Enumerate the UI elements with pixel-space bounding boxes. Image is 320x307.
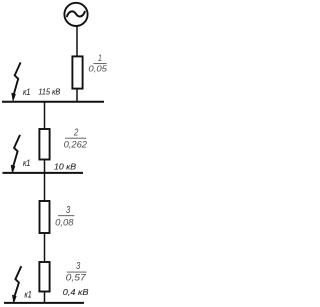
- svg-text:к1: к1: [23, 87, 30, 97]
- label к1 (third): [24, 290, 31, 300]
- label fraction 1/0,05: [88, 53, 107, 73]
- label fraction 3/0,08: [55, 205, 74, 227]
- svg-text:0,4 кВ: 0,4 кВ: [63, 287, 89, 297]
- cable element 3 (rect): [40, 201, 50, 233]
- wire generator to element 1: [76, 26, 78, 57]
- short-circuit arrow K1 at 10 kV bus: [11, 135, 20, 174]
- wire element 2 to bus 10 kV: [44, 160, 46, 174]
- label 115 кВ: [38, 87, 60, 97]
- svg-text:10 кВ: 10 кВ: [54, 162, 76, 172]
- bus 0,4 kV: [4, 302, 84, 304]
- svg-text:к1: к1: [24, 290, 31, 300]
- label 0,4 кВ: [63, 287, 89, 297]
- wire element 3 to element 4: [44, 233, 46, 262]
- svg-text:2: 2: [73, 127, 78, 138]
- svg-text:0,05: 0,05: [88, 63, 107, 73]
- svg-text:3: 3: [66, 205, 71, 216]
- wire bus 115 kV to element 2: [44, 102, 46, 129]
- label к1 (second): [23, 158, 30, 168]
- wire element 4 to bus 0,4 kV: [44, 291, 46, 303]
- bus 115 kV: [2, 101, 104, 103]
- generator G: [64, 3, 87, 26]
- label fraction 3/0,57: [66, 261, 87, 282]
- svg-text:0,08: 0,08: [55, 217, 74, 227]
- transformer element 2 (rect): [39, 129, 49, 160]
- svg-text:115 кВ: 115 кВ: [38, 87, 60, 97]
- transformer element 4 (rect): [39, 262, 49, 292]
- short-circuit arrow K1 at 115 kV bus: [12, 62, 21, 101]
- svg-text:3: 3: [76, 261, 81, 272]
- label 10 кВ: [54, 162, 76, 172]
- label к1 (first): [23, 87, 30, 97]
- svg-text:0,262: 0,262: [64, 139, 87, 149]
- wire element 1 to bus 115 kV: [76, 89, 78, 102]
- svg-text:к1: к1: [23, 158, 30, 168]
- bus 10 kV: [3, 172, 84, 174]
- wire bus 10 kV to element 3: [44, 173, 46, 201]
- label fraction 2/0,262: [64, 127, 87, 149]
- svg-text:0,57: 0,57: [66, 272, 87, 282]
- reactance element 1 (rect): [72, 56, 82, 88]
- short-circuit arrow K1 at 0,4 kV bus: [12, 266, 21, 303]
